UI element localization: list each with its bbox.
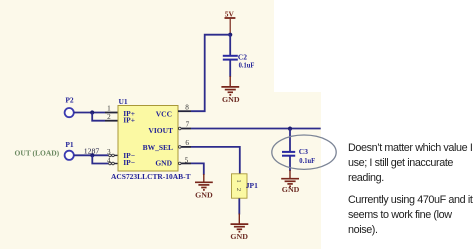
svg-text:P1: P1 — [65, 140, 74, 149]
ground below pin 5 — [195, 174, 213, 199]
junction VIOUT node — [288, 127, 292, 131]
svg-text:IP+: IP+ — [123, 116, 135, 125]
part number ACS723LLCTR-10AB-T — [111, 172, 191, 181]
junction P1 node — [90, 153, 94, 157]
wire GND pin to ground — [191, 163, 204, 175]
jumper JP1 body — [232, 174, 248, 198]
connector P1 — [65, 140, 74, 160]
svg-text:2: 2 — [235, 188, 242, 191]
power 5V — [225, 10, 236, 35]
label C3 — [299, 147, 308, 156]
pin number 3 — [107, 148, 111, 156]
pin number 4 — [107, 157, 111, 165]
svg-text:ACS723LLCTR-10AB-T: ACS723LLCTR-10AB-T — [111, 172, 191, 181]
pin name VCC — [156, 110, 172, 119]
capacitor C2 — [223, 56, 238, 60]
ground below C3 — [281, 157, 300, 194]
pin number 2 — [107, 113, 111, 121]
pin name IP+ (1) — [123, 109, 135, 118]
wire BW_SEL to JP1 — [191, 147, 240, 174]
pin name IP+ (2) — [123, 116, 135, 125]
junction 5V node — [228, 33, 232, 37]
JP1 pin number 1 (rotated) — [235, 179, 242, 182]
value 0.1uF (C2) — [239, 60, 255, 69]
svg-text:OUT (LOAD): OUT (LOAD) — [15, 148, 60, 157]
wire VIOUT output — [191, 128, 321, 130]
annotation ellipse highlight — [272, 135, 336, 169]
svg-text:IP−: IP− — [123, 158, 135, 167]
wire C2 bottom — [229, 60, 231, 77]
pin name IP- (3) — [123, 151, 135, 160]
svg-text:5: 5 — [185, 157, 189, 165]
pin number 7 — [186, 120, 190, 128]
svg-text:1: 1 — [235, 179, 242, 182]
pin 8 stub U1 — [178, 110, 191, 112]
pin number 8 — [185, 104, 189, 112]
wire 5V to VCC (left and down) — [191, 35, 230, 112]
svg-text:U1: U1 — [119, 97, 128, 106]
svg-text:6: 6 — [185, 139, 189, 147]
wire P1 to pin3 — [74, 154, 108, 156]
svg-text:3: 3 — [107, 148, 111, 156]
ground below C2 — [221, 76, 240, 104]
svg-text:0.1uF: 0.1uF — [299, 156, 315, 165]
junction P2 node — [90, 110, 94, 114]
pin 1 stub U1 — [105, 112, 118, 114]
svg-text:VCC: VCC — [156, 110, 172, 119]
wire JP1 bottom — [238, 198, 240, 214]
pin name GND — [155, 159, 172, 168]
wire down to C3 — [289, 129, 291, 151]
value 0.1uF (C3) — [299, 156, 315, 165]
connector P2 — [65, 96, 74, 118]
designator JP1 — [246, 181, 258, 190]
pin name VIOUT — [148, 126, 173, 135]
pin 3 dots — [109, 154, 118, 157]
svg-text:4: 4 — [107, 157, 111, 165]
pin number 6 — [185, 139, 189, 147]
op-amp U1 body — [118, 106, 178, 172]
wire P2 to pin1 — [74, 112, 105, 114]
svg-text:VIOUT: VIOUT — [148, 126, 173, 135]
pin 6 stub U1 — [179, 146, 192, 149]
capacitor C3 — [282, 152, 295, 156]
svg-text:GND: GND — [230, 232, 248, 241]
pin 7 stub U1 — [179, 127, 192, 130]
svg-text:2: 2 — [107, 113, 111, 121]
wire P2 branch to pin2 — [92, 113, 105, 121]
annotation note text — [348, 141, 474, 246]
svg-text:P2: P2 — [65, 96, 74, 105]
svg-text:GND: GND — [282, 185, 300, 194]
pin number 1 — [107, 104, 111, 112]
svg-text:GND: GND — [155, 159, 172, 168]
schematic sheet background (upper strip) — [0, 0, 274, 92]
net label 1287 — [84, 147, 100, 156]
JP1 pin number 2 (rotated) — [235, 188, 242, 191]
pin number 5 — [185, 157, 189, 165]
net name OUT (LOAD) — [15, 148, 60, 157]
svg-text:7: 7 — [186, 120, 190, 128]
label C2 — [238, 52, 247, 61]
pin name IP- (4) — [123, 158, 135, 167]
ground below JP1 — [230, 214, 248, 241]
pin 4 dots — [109, 162, 118, 165]
pin 2 stub U1 — [105, 120, 118, 122]
svg-text:1: 1 — [107, 104, 111, 112]
wire P1 branch to pin4 — [92, 155, 108, 163]
svg-text:1287: 1287 — [84, 147, 100, 156]
svg-text:8: 8 — [185, 104, 189, 112]
designator U1 — [119, 97, 128, 106]
pin name BW_SEL — [143, 143, 173, 152]
svg-text:GND: GND — [222, 95, 240, 104]
svg-text:BW_SEL: BW_SEL — [143, 143, 173, 152]
svg-text:0.1uF: 0.1uF — [239, 60, 255, 69]
svg-text:JP1: JP1 — [246, 181, 258, 190]
pin 5 stub U1 — [179, 162, 192, 165]
schematic sheet background (lower block) — [0, 92, 321, 249]
svg-text:GND: GND — [195, 190, 213, 199]
wire 5V junction down to C2 — [229, 35, 231, 55]
